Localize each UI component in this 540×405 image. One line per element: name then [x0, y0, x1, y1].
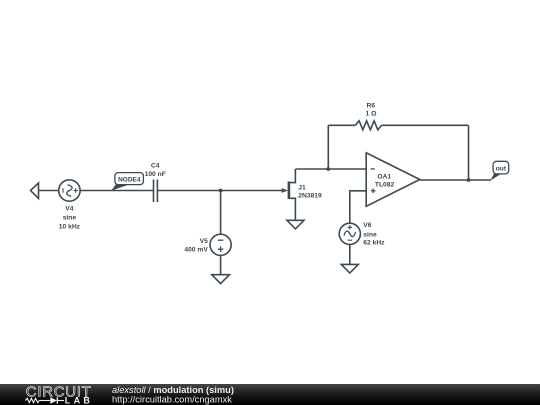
logo wire	[39, 400, 50, 402]
svg-text:J1: J1	[298, 184, 306, 191]
wire V4 to C4	[80, 190, 153, 192]
source V6	[339, 223, 360, 244]
node flag out	[490, 161, 508, 180]
svg-text:alexstoll / modulation (simu): alexstoll / modulation (simu)	[112, 385, 234, 395]
resistor R6	[355, 121, 381, 130]
node junction at inverting input	[326, 167, 330, 171]
svg-text:V5: V5	[200, 238, 208, 245]
svg-text:out: out	[496, 165, 507, 172]
transistor J1 body	[282, 169, 296, 220]
wire V5 to ground	[220, 255, 222, 274]
svg-text:400 mV: 400 mV	[184, 247, 208, 254]
ground (J1 source)	[287, 220, 304, 229]
wire C4 to J1 gate	[157, 190, 285, 192]
wire J1 drain to op-amp inverting input	[295, 168, 366, 170]
wire input to V4	[39, 190, 59, 192]
node flag NODE4	[111, 173, 143, 191]
node junction at output	[467, 178, 471, 182]
source V5	[210, 234, 231, 255]
svg-text:OA1: OA1	[377, 174, 391, 181]
svg-text:TL082: TL082	[375, 182, 395, 189]
svg-text:LAB: LAB	[65, 396, 93, 405]
output wire	[420, 179, 491, 181]
feedback wire up	[327, 125, 329, 169]
svg-text:R6: R6	[367, 103, 376, 110]
logo diode	[50, 397, 57, 403]
node junction at V5 tap	[219, 189, 223, 193]
svg-text:100 nF: 100 nF	[145, 171, 166, 178]
svg-text:62 kHz: 62 kHz	[363, 240, 385, 247]
svg-text:sine: sine	[363, 231, 377, 238]
svg-text:V6: V6	[363, 222, 371, 229]
input port IN	[31, 183, 39, 199]
V5 branch wire	[220, 191, 222, 235]
ground (V5)	[212, 275, 230, 284]
feedback wire down to output	[468, 125, 470, 180]
wire V6 to ground	[349, 244, 351, 264]
svg-text:2N3819: 2N3819	[298, 193, 322, 200]
svg-text:V4: V4	[65, 206, 73, 213]
svg-text:10 kHz: 10 kHz	[59, 224, 81, 231]
wire R6 to right vertical	[382, 124, 469, 126]
svg-text:NODE4: NODE4	[118, 176, 141, 183]
capacitor C4	[154, 180, 158, 203]
svg-text:C4: C4	[151, 163, 160, 170]
svg-text:1 Ω: 1 Ω	[366, 111, 378, 118]
ground (V6)	[341, 264, 358, 273]
svg-text:http://circuitlab.com/cngamxk: http://circuitlab.com/cngamxk	[112, 394, 232, 404]
wire to R6	[328, 124, 355, 126]
footer watermark bar	[0, 384, 540, 405]
op-amp + input wire	[350, 191, 366, 223]
logo resistor zigzag	[25, 398, 39, 402]
op-amp OA1	[366, 153, 420, 207]
svg-text:sine: sine	[63, 215, 77, 222]
source V4	[59, 180, 80, 201]
